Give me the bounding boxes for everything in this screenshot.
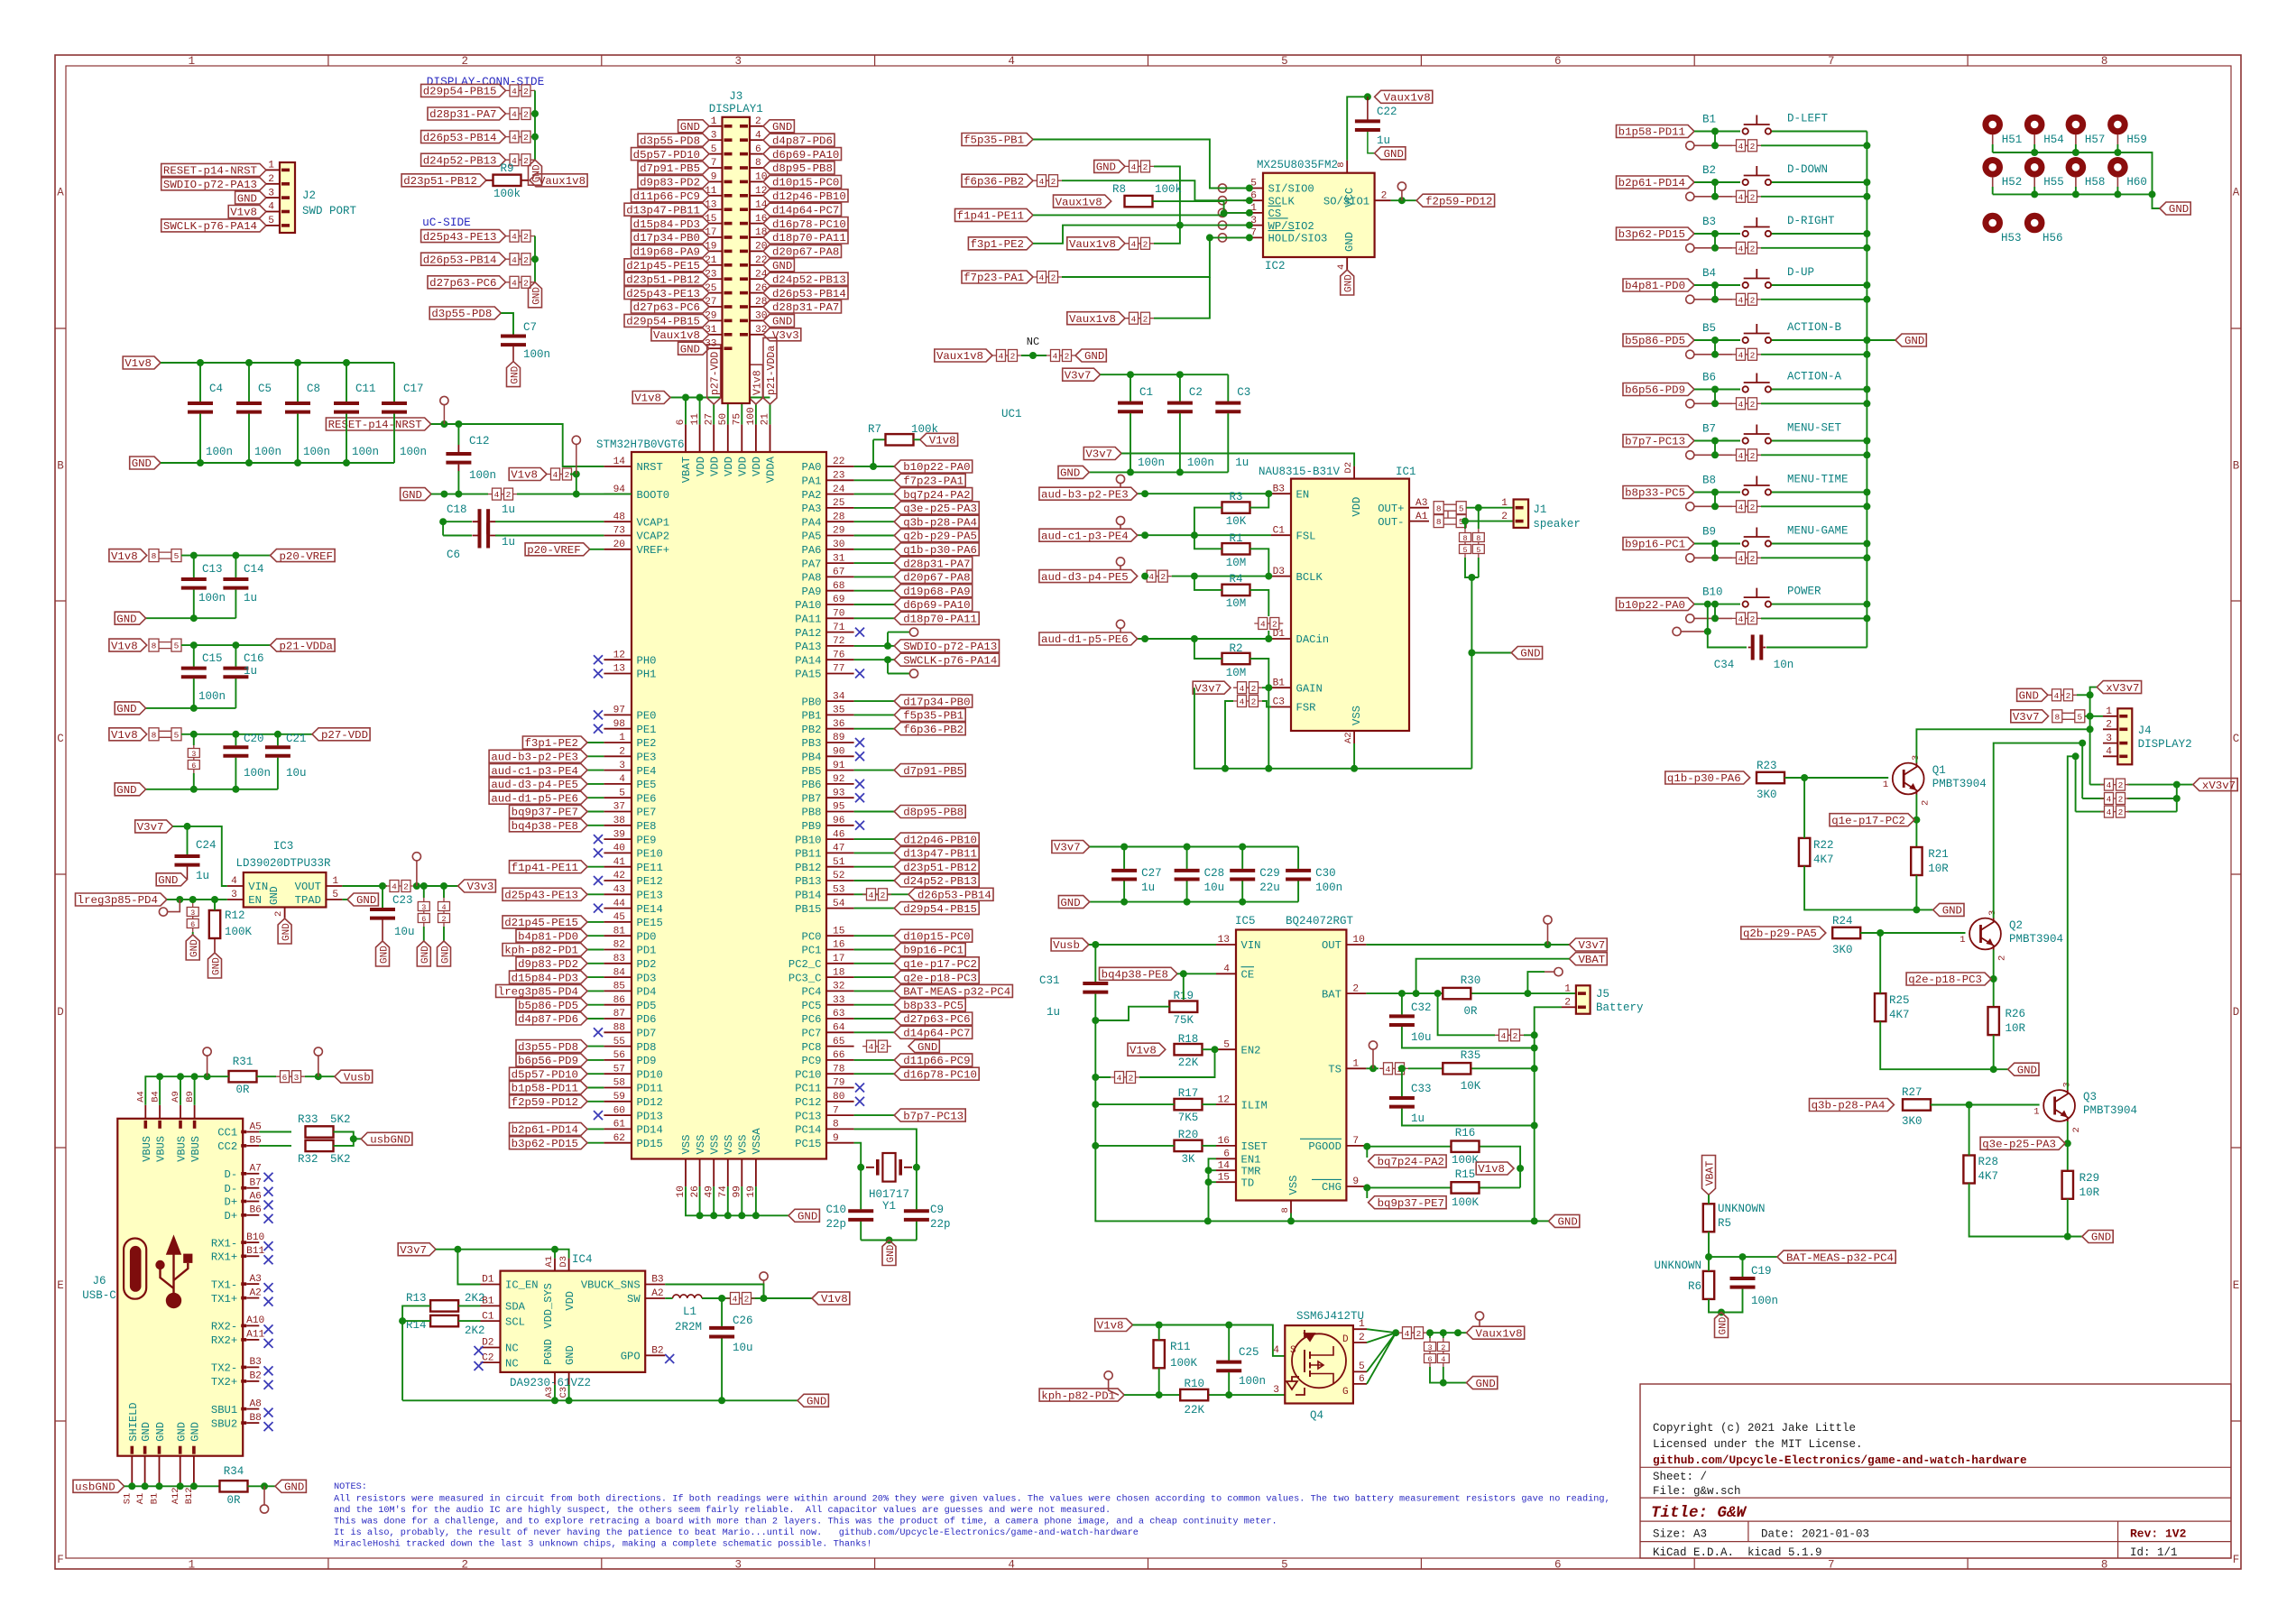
wire audio gnd drop bbox=[1471, 577, 1472, 769]
svg-text:3: 3 bbox=[294, 1073, 300, 1083]
svg-text:V3v3: V3v3 bbox=[467, 881, 494, 893]
svg-text:6: 6 bbox=[190, 920, 195, 929]
svg-text:4: 4 bbox=[733, 1295, 738, 1305]
svg-text:aud-d1-p5-PE6: aud-d1-p5-PE6 bbox=[1041, 633, 1129, 646]
svg-text:A3: A3 bbox=[249, 1274, 261, 1285]
svg-text:10u: 10u bbox=[286, 767, 307, 780]
svg-text:100n: 100n bbox=[352, 446, 379, 458]
capacitor C34 bbox=[1748, 647, 1766, 649]
wire cap bank top bbox=[161, 362, 394, 364]
svg-text:EN1: EN1 bbox=[1241, 1154, 1261, 1167]
svg-text:b7p7-PC13: b7p7-PC13 bbox=[1625, 436, 1685, 448]
svg-text:33: 33 bbox=[833, 995, 844, 1006]
audio IC1 body bbox=[1291, 479, 1409, 731]
junction J5 gnd rail a bbox=[1531, 1031, 1538, 1038]
svg-text:PE6: PE6 bbox=[637, 792, 657, 805]
power flag GND (NC net) bbox=[1075, 349, 1106, 362]
hole stub 3 bbox=[2116, 134, 2118, 144]
capacitor C32 bbox=[1401, 1014, 1403, 1027]
svg-text:0R: 0R bbox=[226, 1494, 241, 1507]
capacitor C20 bbox=[235, 745, 236, 758]
svg-text:4: 4 bbox=[1131, 239, 1137, 249]
power flag GND (cap bank) bbox=[130, 457, 161, 469]
svg-text:5: 5 bbox=[1359, 1361, 1365, 1372]
svg-text:C3: C3 bbox=[1237, 386, 1250, 399]
svg-text:100n: 100n bbox=[244, 767, 271, 780]
wire C15 leads bbox=[193, 645, 195, 667]
svg-text:NC: NC bbox=[505, 1357, 519, 1370]
svg-text:1: 1 bbox=[711, 116, 717, 127]
svg-text:6: 6 bbox=[282, 1073, 288, 1083]
svg-text:FSR: FSR bbox=[1296, 702, 1316, 715]
power flag GND (flash tie) bbox=[1094, 160, 1125, 172]
net-tie vertical (Vaux b) bbox=[1443, 1338, 1444, 1367]
svg-text:d27p63-PC6: d27p63-PC6 bbox=[903, 1013, 970, 1026]
wire L1 to V1v8 bbox=[702, 1297, 733, 1299]
svg-text:97: 97 bbox=[613, 706, 625, 716]
stub R34 circle bbox=[263, 1486, 265, 1505]
svg-text:d28p31-PA7: d28p31-PA7 bbox=[772, 301, 839, 314]
label kph-p82-PD1 bbox=[1039, 1389, 1124, 1401]
svg-text:SWDIO-p72-PA13: SWDIO-p72-PA13 bbox=[163, 179, 257, 191]
svg-text:2: 2 bbox=[1251, 684, 1257, 694]
svg-text:2: 2 bbox=[523, 232, 529, 242]
svg-text:C23: C23 bbox=[392, 894, 413, 907]
svg-text:d23p51-PB12: d23p51-PB12 bbox=[626, 273, 700, 286]
net-tie 4-2 (B1) bbox=[1732, 144, 1761, 146]
svg-text:A: A bbox=[57, 186, 64, 198]
junction Vaux 3 bbox=[1454, 1329, 1462, 1336]
svg-text:10u: 10u bbox=[1204, 881, 1225, 894]
junction EN 2 bbox=[189, 896, 197, 903]
svg-text:USB-C: USB-C bbox=[82, 1289, 116, 1302]
svg-text:D1: D1 bbox=[482, 1275, 494, 1286]
svg-text:7: 7 bbox=[833, 1105, 839, 1116]
svg-text:aud-c1-p3-PE4: aud-c1-p3-PE4 bbox=[1041, 530, 1129, 542]
svg-text:VDD: VDD bbox=[564, 1291, 576, 1311]
wire J4 gnd tie bbox=[2077, 694, 2090, 696]
net-tie vertical VOUT a bbox=[423, 898, 425, 927]
resistor R16 bbox=[1452, 1146, 1480, 1148]
no-connect marks left bbox=[594, 655, 603, 664]
junction VDD gnd 2 bbox=[232, 786, 239, 793]
power flag GND (TPAD) bbox=[347, 893, 378, 906]
svg-text:GND: GND bbox=[379, 946, 390, 964]
svg-text:PE3: PE3 bbox=[637, 752, 657, 764]
svg-text:GND: GND bbox=[158, 874, 178, 887]
svg-text:GND: GND bbox=[1060, 467, 1080, 480]
capacitor C31 bbox=[1094, 982, 1096, 994]
power flag GND (C12) bbox=[401, 488, 431, 501]
label b5p86-PD5 bbox=[1623, 334, 1694, 346]
svg-text:SHIELD: SHIELD bbox=[127, 1402, 140, 1441]
svg-text:D2: D2 bbox=[1343, 462, 1354, 474]
stub to open circle NRST bbox=[443, 405, 445, 424]
open circle VOUT bbox=[412, 853, 420, 861]
svg-text:10R: 10R bbox=[2079, 1186, 2100, 1199]
svg-text:C32: C32 bbox=[1411, 1001, 1432, 1014]
junction BAT 2 bbox=[1413, 990, 1420, 997]
junction ucs 1 bbox=[531, 255, 539, 263]
stub open circle SO bbox=[1401, 190, 1403, 200]
svg-text:H54: H54 bbox=[2043, 134, 2064, 146]
wire FSR bbox=[1262, 701, 1271, 707]
svg-text:2: 2 bbox=[1750, 192, 1756, 202]
svg-text:D: D bbox=[1342, 1334, 1349, 1345]
svg-text:2: 2 bbox=[1143, 239, 1148, 249]
wire usbGND bus bbox=[124, 1485, 220, 1487]
svg-text:ISET: ISET bbox=[1241, 1140, 1268, 1153]
svg-text:4: 4 bbox=[1148, 572, 1154, 582]
svg-text:PA1: PA1 bbox=[802, 475, 822, 488]
junction C19 top bbox=[1739, 1253, 1747, 1260]
junction GND row 1 bbox=[440, 491, 447, 498]
svg-text:A8: A8 bbox=[249, 1398, 261, 1409]
svg-text:MX25U8035FM2: MX25U8035FM2 bbox=[1257, 159, 1338, 171]
power flag GND (C27 bank) bbox=[1058, 896, 1089, 909]
svg-text:GND: GND bbox=[237, 192, 257, 205]
usb J6 right pins bbox=[241, 1130, 246, 1134]
wires Q4 drain join bbox=[1367, 1329, 1396, 1333]
svg-text:4: 4 bbox=[869, 1042, 874, 1052]
svg-text:d25p43-PE13: d25p43-PE13 bbox=[504, 890, 578, 902]
buck IC4 right pins bbox=[645, 1284, 665, 1286]
connector J3 right pin leads bbox=[750, 125, 763, 127]
svg-text:aud-c1-p3-PE4: aud-c1-p3-PE4 bbox=[491, 765, 578, 778]
svg-text:1u: 1u bbox=[196, 870, 209, 882]
capacitor C12 bbox=[457, 445, 459, 472]
svg-text:2: 2 bbox=[1051, 177, 1056, 187]
resistor R8 bbox=[1125, 200, 1153, 202]
svg-text:1u: 1u bbox=[244, 665, 257, 678]
label xV3v7 (right) bbox=[2193, 779, 2237, 791]
svg-text:GND: GND bbox=[564, 1345, 576, 1365]
svg-text:5: 5 bbox=[268, 216, 274, 226]
wire hole bus1 bbox=[1993, 152, 2153, 194]
svg-text:d8p95-PB8: d8p95-PB8 bbox=[772, 162, 833, 175]
svg-text:PC13: PC13 bbox=[795, 1110, 821, 1122]
svg-text:VSS: VSS bbox=[1287, 1176, 1300, 1195]
svg-text:bq9p37-PE7: bq9p37-PE7 bbox=[512, 807, 578, 819]
resistor R7 bbox=[886, 438, 914, 440]
svg-text:LD39020DTPU33R: LD39020DTPU33R bbox=[235, 857, 331, 870]
wire PC15 to crystal bbox=[854, 1143, 862, 1167]
svg-text:2: 2 bbox=[565, 470, 570, 480]
svg-text:GND: GND bbox=[116, 784, 136, 797]
wires audio labels bbox=[1138, 493, 1271, 494]
junction Y1 right bbox=[913, 1164, 920, 1171]
svg-text:d20p67-PA8: d20p67-PA8 bbox=[772, 246, 839, 259]
wire C33 leads bbox=[1401, 1068, 1403, 1096]
junction VCAP bbox=[439, 518, 447, 525]
resistor R4 bbox=[1222, 589, 1250, 591]
svg-text:4: 4 bbox=[494, 490, 500, 500]
svg-text:PMBT3904: PMBT3904 bbox=[2009, 933, 2063, 946]
label Vusb bbox=[335, 1070, 373, 1083]
svg-text:6: 6 bbox=[1554, 1559, 1562, 1572]
wire C12 bottom to GND row bbox=[457, 471, 459, 494]
jumper pack 8-5 (OUT-) bbox=[1434, 515, 1443, 528]
svg-text:92: 92 bbox=[833, 774, 844, 785]
svg-text:32: 32 bbox=[833, 982, 844, 992]
svg-text:PA3: PA3 bbox=[802, 503, 822, 515]
svg-text:8: 8 bbox=[1336, 161, 1347, 167]
svg-text:H53: H53 bbox=[2001, 232, 2022, 245]
junction Q4 drain bbox=[1392, 1329, 1399, 1336]
svg-text:70: 70 bbox=[833, 609, 845, 620]
junction C26 top bbox=[718, 1295, 725, 1302]
svg-text:PH0: PH0 bbox=[637, 654, 657, 667]
charger IC5 body bbox=[1236, 930, 1346, 1201]
wire B6 drop bbox=[1714, 390, 1716, 404]
svg-text:3: 3 bbox=[190, 909, 195, 918]
svg-text:35: 35 bbox=[833, 706, 844, 716]
svg-text:Id: 1/1: Id: 1/1 bbox=[2130, 1546, 2178, 1559]
wire R27 to Q3 base bbox=[1931, 1104, 2040, 1106]
svg-text:d14p64-PC7: d14p64-PC7 bbox=[903, 1028, 970, 1040]
svg-text:PE12: PE12 bbox=[637, 875, 663, 888]
wire BAT tie bbox=[1438, 993, 1495, 1035]
label b8p33-PC5 bbox=[1623, 486, 1694, 499]
svg-text:VCC: VCC bbox=[1343, 188, 1356, 208]
svg-text:b4p81-PD0: b4p81-PD0 bbox=[518, 930, 578, 943]
svg-text:b10p22-PA0: b10p22-PA0 bbox=[1618, 599, 1685, 612]
resistor R6 bbox=[1708, 1271, 1710, 1299]
svg-text:R17: R17 bbox=[1178, 1087, 1199, 1100]
wire C31 bottom / left rail bbox=[1095, 994, 1208, 1222]
svg-text:7: 7 bbox=[1828, 55, 1835, 68]
svg-text:FSL: FSL bbox=[1296, 530, 1316, 542]
svg-text:C1: C1 bbox=[1273, 525, 1286, 536]
net-tie vertical (OUT-) bbox=[1464, 529, 1466, 558]
svg-text:1: 1 bbox=[1564, 983, 1571, 994]
svg-text:CC2: CC2 bbox=[217, 1140, 237, 1153]
junction R30 out bbox=[1524, 990, 1531, 997]
svg-text:1: 1 bbox=[268, 161, 274, 171]
svg-text:100n: 100n bbox=[1187, 457, 1214, 469]
svg-text:V1v8: V1v8 bbox=[511, 469, 538, 482]
svg-text:Q4: Q4 bbox=[1310, 1409, 1323, 1422]
svg-text:PA15: PA15 bbox=[795, 669, 821, 681]
svg-text:C5: C5 bbox=[258, 383, 272, 395]
svg-text:H56: H56 bbox=[2042, 232, 2063, 245]
svg-text:RESET-p14-NRST: RESET-p14-NRST bbox=[163, 165, 257, 178]
svg-text:q1e-p17-PC2: q1e-p17-PC2 bbox=[1831, 815, 1905, 827]
wire VBAT bbox=[1416, 959, 1570, 993]
wire NC net bbox=[1021, 355, 1047, 356]
svg-text:3: 3 bbox=[1427, 1343, 1432, 1352]
svg-text:8: 8 bbox=[2101, 55, 2108, 68]
svg-text:8: 8 bbox=[152, 641, 157, 651]
svg-text:b3p62-PD15: b3p62-PD15 bbox=[1618, 228, 1685, 241]
wire CHG net bbox=[1366, 1186, 1451, 1188]
labels J3 left bbox=[678, 120, 709, 133]
open circle TS bbox=[1369, 1041, 1377, 1049]
svg-text:B7: B7 bbox=[1702, 423, 1716, 436]
svg-text:VDD: VDD bbox=[751, 457, 763, 476]
capacitors C1 C2 C3 bbox=[1130, 401, 1131, 414]
svg-text:PE8: PE8 bbox=[637, 820, 657, 833]
svg-text:SWD PORT: SWD PORT bbox=[302, 205, 357, 217]
svg-text:bq7p24-PA2: bq7p24-PA2 bbox=[903, 489, 970, 502]
switch B2 bbox=[1743, 180, 1748, 185]
svg-text:d20p67-PA8: d20p67-PA8 bbox=[903, 572, 970, 585]
wire C16 leads bbox=[235, 645, 236, 667]
svg-text:PC5: PC5 bbox=[802, 1000, 822, 1012]
svg-text:100n: 100n bbox=[198, 592, 226, 604]
mosfet Q4 right pins bbox=[1353, 1329, 1367, 1384]
resistor R31 bbox=[229, 1075, 257, 1077]
svg-text:C17: C17 bbox=[403, 383, 424, 395]
svg-text:4: 4 bbox=[1260, 620, 1266, 630]
resistor R19 bbox=[1169, 1006, 1197, 1008]
svg-text:PE7: PE7 bbox=[637, 807, 657, 819]
svg-text:C1: C1 bbox=[1139, 386, 1153, 399]
svg-text:D-LEFT: D-LEFT bbox=[1787, 113, 1829, 125]
svg-text:f6p36-PB2: f6p36-PB2 bbox=[964, 175, 1024, 188]
svg-text:R18: R18 bbox=[1178, 1033, 1199, 1046]
svg-text:V3v7: V3v7 bbox=[400, 1244, 427, 1257]
svg-text:PD14: PD14 bbox=[637, 1124, 663, 1137]
jumper pack link bbox=[1447, 511, 1449, 518]
svg-text:C6: C6 bbox=[447, 549, 460, 561]
transistor Q1 bbox=[1893, 763, 1924, 795]
svg-text:GND: GND bbox=[2019, 690, 2039, 703]
svg-text:PB9: PB9 bbox=[802, 820, 822, 833]
junction R4 b bbox=[1265, 635, 1272, 642]
wire R20 links bbox=[1095, 1145, 1174, 1147]
wire PA12 circle net bbox=[887, 640, 889, 646]
resistor R30 bbox=[1443, 992, 1471, 994]
junction B3 bus2 bbox=[1863, 245, 1870, 252]
svg-text:2: 2 bbox=[2118, 807, 2124, 817]
svg-text:C30: C30 bbox=[1315, 867, 1336, 880]
connector J3 left pin ticks bbox=[724, 125, 733, 128]
power flag GND (R12) bbox=[208, 953, 222, 978]
wire B5 row2 bbox=[1694, 354, 1732, 355]
junction dcs 1 bbox=[531, 110, 539, 117]
svg-text:V1v8: V1v8 bbox=[124, 357, 152, 370]
svg-text:bq4p38-PE8: bq4p38-PE8 bbox=[1102, 969, 1168, 982]
label Vusb (VIN) bbox=[1051, 938, 1089, 951]
label bq9p37-PE7 bbox=[1369, 1196, 1447, 1209]
svg-text:H59: H59 bbox=[2126, 134, 2147, 146]
wires UC1 left labels bbox=[587, 742, 604, 743]
label d23p51-PB12 (R9) bbox=[401, 174, 486, 187]
switch B9 bbox=[1743, 540, 1748, 546]
svg-text:44: 44 bbox=[613, 899, 626, 909]
svg-text:16: 16 bbox=[1218, 1136, 1230, 1147]
mosfet Q4 symbol bbox=[1292, 1333, 1346, 1388]
svg-text:d29p54-PB15: d29p54-PB15 bbox=[626, 316, 700, 328]
junction J4 xv bbox=[2087, 691, 2094, 698]
capacitor C16 bbox=[235, 667, 236, 679]
wire f5p35 to SI bbox=[1033, 140, 1249, 189]
power flag GND (Q1) bbox=[1933, 903, 1964, 916]
wire C13 leads bbox=[193, 556, 195, 577]
svg-text:f7p23-PA1: f7p23-PA1 bbox=[964, 272, 1024, 284]
svg-text:4: 4 bbox=[231, 876, 237, 887]
svg-text:18: 18 bbox=[833, 967, 844, 978]
svg-text:VDD: VDD bbox=[723, 457, 735, 476]
wire C22 leads bbox=[1367, 97, 1369, 119]
flash IC2 body bbox=[1263, 173, 1375, 257]
svg-text:2: 2 bbox=[881, 1042, 886, 1052]
svg-text:GND: GND bbox=[1476, 1378, 1496, 1390]
label V1v8 (BOOT0 pulldown) bbox=[509, 468, 547, 481]
wire PGOOD net bbox=[1366, 1146, 1451, 1148]
svg-text:GND: GND bbox=[356, 894, 376, 907]
label Vaux1v8 (R8) bbox=[1054, 195, 1111, 208]
svg-text:TX2+: TX2+ bbox=[211, 1376, 237, 1389]
wire C27 bank top bbox=[1090, 846, 1298, 848]
svg-text:C20: C20 bbox=[244, 733, 264, 745]
no-connect marks right bbox=[855, 628, 864, 637]
svg-text:4: 4 bbox=[1386, 1065, 1391, 1075]
wire C7 net bbox=[501, 313, 513, 335]
wire B3 row bbox=[1694, 233, 1740, 235]
svg-text:100k: 100k bbox=[1155, 183, 1182, 196]
net-tie 4-2 (xv a) bbox=[2100, 784, 2129, 786]
svg-text:d28p31-PA7: d28p31-PA7 bbox=[429, 108, 496, 121]
svg-text:POWER: POWER bbox=[1787, 586, 1821, 598]
svg-text:B10: B10 bbox=[246, 1232, 264, 1243]
svg-text:1: 1 bbox=[189, 1559, 196, 1572]
junction C34 a bbox=[1704, 601, 1711, 608]
svg-text:6: 6 bbox=[421, 915, 426, 924]
junction B8 bus bbox=[1863, 489, 1870, 496]
label p20-VREF bbox=[525, 543, 590, 556]
wire IC5 gnd tail bbox=[1535, 1220, 1549, 1222]
svg-text:UC1: UC1 bbox=[1001, 408, 1022, 420]
wire C20 leads bbox=[235, 734, 236, 745]
svg-text:100n: 100n bbox=[206, 446, 233, 458]
svg-text:2: 2 bbox=[1381, 190, 1388, 201]
wire B6 row bbox=[1694, 389, 1740, 391]
svg-text:4: 4 bbox=[1336, 264, 1347, 270]
wire C7 bottom bbox=[512, 346, 514, 362]
svg-text:C21: C21 bbox=[286, 733, 307, 745]
svg-text:6: 6 bbox=[1554, 55, 1562, 68]
junction B1 row2 a bbox=[1711, 142, 1719, 149]
svg-text:VCAP2: VCAP2 bbox=[637, 531, 670, 543]
svg-text:V3v7: V3v7 bbox=[1054, 842, 1081, 854]
svg-text:3: 3 bbox=[619, 761, 625, 771]
label f2p59-PD12 (SO) bbox=[1416, 194, 1495, 207]
svg-text:C11: C11 bbox=[355, 383, 376, 395]
label b2p61-PD14 bbox=[1617, 176, 1695, 189]
svg-text:D: D bbox=[2233, 1006, 2240, 1019]
svg-text:3K0: 3K0 bbox=[1902, 1115, 1923, 1128]
junctions VSS bus bbox=[696, 1212, 704, 1219]
svg-text:52: 52 bbox=[833, 871, 844, 881]
svg-text:31: 31 bbox=[833, 553, 845, 564]
wire VSS pin drop bbox=[1290, 1213, 1292, 1222]
junction C26 gnd bbox=[718, 1397, 725, 1404]
open circle VBUS bbox=[203, 1047, 211, 1056]
junction B7 bbox=[1711, 438, 1719, 445]
label Vaux1v8 (HOLD tie) bbox=[1067, 312, 1125, 325]
svg-text:4: 4 bbox=[1501, 1031, 1507, 1041]
svg-text:100n: 100n bbox=[523, 348, 550, 361]
svg-text:V3v7: V3v7 bbox=[2013, 711, 2040, 724]
svg-text:2: 2 bbox=[1129, 1074, 1134, 1084]
svg-text:A2: A2 bbox=[651, 1288, 663, 1299]
svg-text:VIN: VIN bbox=[248, 881, 268, 893]
svg-text:9: 9 bbox=[1352, 1176, 1359, 1187]
junction IC4 a bbox=[454, 1246, 461, 1253]
net-tie 4-2 (BAT) bbox=[1495, 1034, 1524, 1036]
